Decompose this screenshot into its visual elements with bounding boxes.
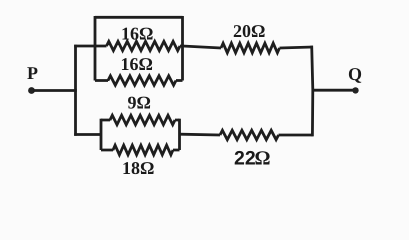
wire bottom branch right	[279, 134, 314, 137]
svg-text:16Ω: 16Ω	[121, 54, 153, 74]
resistor R5 18ohm	[101, 145, 180, 155]
wire 9-18 box left bar	[100, 119, 103, 150]
resistor R6 22ohm	[220, 130, 279, 139]
svg-text:9Ω: 9Ω	[128, 93, 151, 113]
node P	[28, 87, 35, 94]
wire bottom branch left	[74, 133, 101, 136]
wire to node Q	[312, 89, 354, 92]
resistor R1 16ohm	[107, 41, 181, 50]
svg-text:Ω: Ω	[255, 148, 271, 170]
wire 16ohm box top rail	[95, 16, 183, 19]
svg-text:18Ω: 18Ω	[122, 158, 154, 178]
wire left vertical junction	[74, 45, 77, 136]
wire P to left junction	[33, 89, 77, 92]
wire right vertical junction	[312, 46, 313, 137]
resistor R3 20ohm	[221, 43, 280, 53]
svg-text:Q: Q	[348, 64, 362, 84]
wire top branch left	[74, 45, 106, 48]
svg-text:P: P	[27, 63, 38, 83]
wire 16ohm box right bar	[181, 16, 184, 81]
svg-text:20Ω: 20Ω	[233, 21, 265, 41]
node Q	[352, 87, 358, 93]
resistor R2 16ohm	[95, 76, 183, 85]
wire mid top branch	[180, 46, 221, 48]
wire 16ohm box left bar	[94, 16, 97, 81]
wire top branch right	[280, 47, 314, 48]
resistor R4 9ohm	[101, 115, 180, 124]
svg-text:16Ω: 16Ω	[121, 24, 153, 44]
wire 9-18 box right bar	[178, 119, 181, 150]
svg-text:22: 22	[234, 148, 256, 170]
wire mid bottom branch	[180, 133, 221, 137]
